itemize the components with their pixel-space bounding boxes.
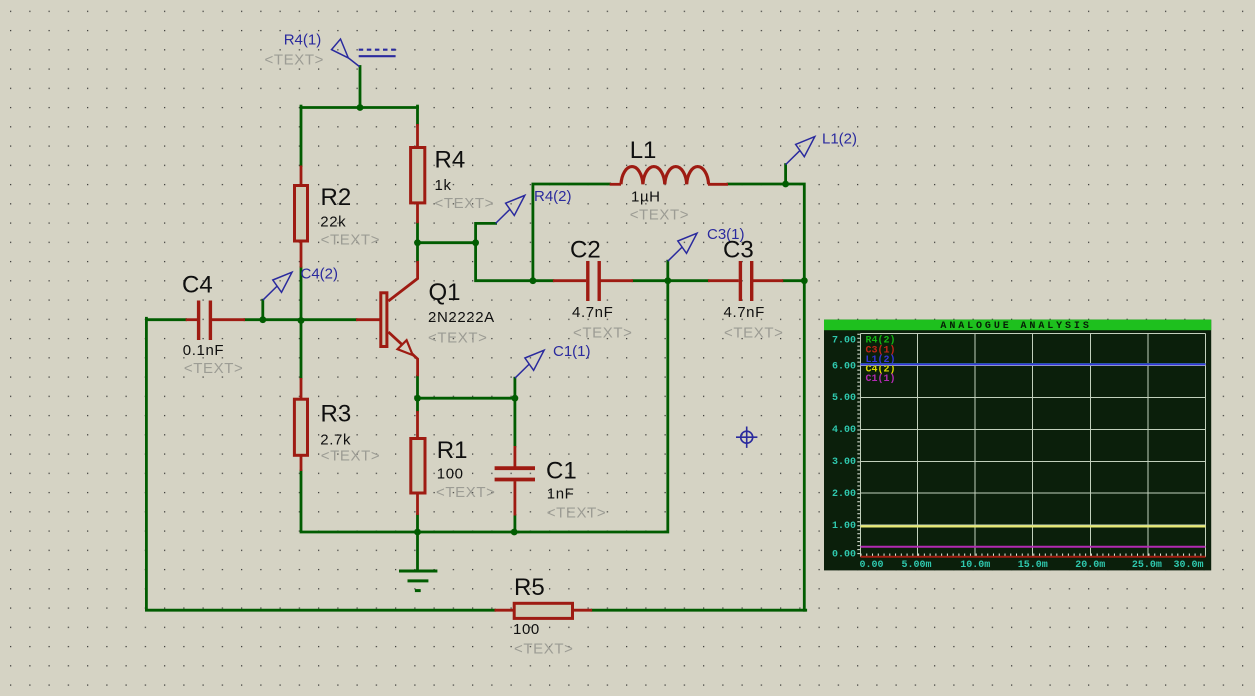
wire - stub for label R4(2) (476, 223, 496, 242)
svg-text:L1: L1 (630, 137, 657, 164)
wire - C2/C3 node down to bottom rail (514, 281, 668, 532)
pin - R5 left (495, 609, 515, 612)
node C2 left junction (530, 277, 537, 284)
wire - emitter to emitter node (416, 376, 419, 398)
graph gridlines (861, 334, 1206, 557)
pin - R1 bottom (416, 494, 419, 516)
net label arrow R4(2) (496, 195, 525, 223)
pin - C4 right (212, 318, 245, 321)
svg-text:<TEXT>: <TEXT> (724, 325, 783, 342)
resistor R2 (295, 186, 308, 242)
svg-text:1k: 1k (435, 177, 452, 194)
svg-text:30.0m: 30.0m (1173, 560, 1203, 571)
svg-text:4.7nF: 4.7nF (724, 304, 765, 321)
net label arrow L1(2) (786, 137, 815, 165)
power rail symbol (VCC terminal) (359, 50, 396, 57)
analogue analysis graph panel (824, 320, 1211, 571)
resistor R3 (294, 399, 307, 455)
capacitor C3 right plate (750, 261, 753, 301)
wire - collector node to feedback corner (418, 241, 476, 244)
trace C4(2) (yellow) (861, 525, 1206, 527)
wire - base node down to R3 (300, 321, 303, 379)
svg-text:25.0m: 25.0m (1132, 560, 1162, 571)
net label arrow C3(1) (668, 233, 697, 261)
pin - C4 left (186, 318, 198, 321)
svg-text:0.00: 0.00 (832, 549, 856, 560)
net label arrow C1(1) (515, 350, 544, 378)
svg-text:C1(1): C1(1) (553, 343, 591, 360)
svg-text:R3: R3 (321, 401, 352, 428)
node collector junction (414, 239, 421, 246)
svg-text:15.0m: 15.0m (1018, 560, 1048, 571)
svg-text:3.00: 3.00 (832, 457, 856, 468)
svg-text:10.0m: 10.0m (960, 560, 990, 571)
wire - stub for label C1(1) (514, 378, 517, 398)
pin - R1 top (416, 411, 419, 439)
wire - stub for label L1(2) (784, 165, 787, 184)
wire - emitter node to C1 node (418, 397, 515, 400)
wire - C3 to right rail (783, 279, 804, 282)
svg-text:4.00: 4.00 (832, 425, 856, 436)
node C1(1) junction (512, 395, 519, 402)
pin - R2 top (300, 166, 303, 187)
capacitor C2 right plate (598, 261, 601, 301)
wire - C1 node down to C1 (514, 398, 517, 446)
capacitor C2 left plate (586, 261, 589, 301)
resistor R5 (514, 603, 572, 618)
svg-text:<TEXT>: <TEXT> (265, 52, 324, 69)
wire - right rail down (784, 184, 804, 610)
svg-text:2N2222A: 2N2222A (428, 309, 495, 326)
svg-text:0.00: 0.00 (860, 560, 884, 571)
svg-text:22k: 22k (320, 213, 346, 230)
wire - top rail (301, 106, 418, 109)
capacitor C3 left plate (739, 261, 742, 301)
svg-text:1.00: 1.00 (832, 521, 856, 532)
wire - ground rail to ground symbol (416, 532, 419, 571)
svg-text:R1: R1 (437, 437, 468, 464)
svg-text:<TEXT>: <TEXT> (436, 484, 495, 501)
wire - L1 right to node L1(2) (728, 183, 786, 186)
svg-text:6.00: 6.00 (832, 361, 856, 372)
pin - Q1 base (356, 318, 380, 321)
svg-text:<TEXT>: <TEXT> (428, 330, 487, 347)
svg-text:<TEXT>: <TEXT> (573, 325, 632, 342)
node ground rail junction 1 (414, 529, 421, 536)
svg-text:20.0m: 20.0m (1075, 560, 1105, 571)
ground (399, 571, 437, 591)
trace L1(2) (blue) (861, 363, 1206, 365)
inductor L1 (621, 167, 709, 185)
wire - emitter node to R1 (416, 398, 419, 411)
origin marker (736, 427, 757, 448)
pin - L1 left (610, 183, 621, 186)
svg-text:2.7k: 2.7k (320, 431, 351, 448)
svg-text:<TEXT>: <TEXT> (435, 195, 494, 212)
wire - left rail to C4 (146, 318, 185, 321)
svg-text:R5: R5 (514, 574, 545, 601)
pin - R3 bottom (300, 456, 303, 471)
pin - R3 top (300, 378, 303, 399)
resistor R4 (411, 148, 425, 203)
node ground rail junction 2 (511, 529, 518, 536)
svg-text:5.00: 5.00 (832, 393, 856, 404)
pin - L1 right (708, 183, 728, 186)
wire - R5 right to right rail (592, 609, 806, 612)
wire - up to L1 left (533, 184, 610, 282)
pin - C2 right (600, 279, 633, 282)
svg-text:R2: R2 (321, 184, 352, 211)
net label arrow C4(2) (263, 272, 292, 300)
trace R4(2) (green, under blue) (861, 363, 1206, 365)
trace C3(1) (red, on x-axis) (861, 556, 1206, 558)
svg-text:0.1nF: 0.1nF (183, 342, 224, 359)
wire - C1 bottom to ground rail (514, 516, 517, 534)
wire - C2 to C3 (633, 279, 708, 282)
svg-text:R4(1): R4(1) (284, 32, 322, 49)
wire - top rail down to R4 (416, 106, 419, 124)
wire - stub for label C3(1) (666, 261, 669, 281)
wire - R3 bottom to ground rail (301, 471, 518, 532)
svg-text:1µH: 1µH (631, 189, 661, 206)
wire - stub for label C4(2) (261, 300, 264, 320)
wire - R2 bottom to base node (300, 268, 303, 321)
svg-text:C1: C1 (546, 458, 577, 485)
svg-text:<TEXT>: <TEXT> (321, 448, 380, 465)
svg-text:L1(2): L1(2) (822, 131, 857, 148)
wire - R4 bottom to collector node (416, 223, 419, 261)
svg-text:100: 100 (513, 621, 540, 638)
wire - R1 bottom to ground rail (416, 515, 419, 533)
svg-text:R4: R4 (435, 147, 466, 174)
pin - R4 bottom (416, 204, 419, 224)
svg-text:<TEXT>: <TEXT> (514, 641, 573, 658)
svg-text:Q1: Q1 (429, 279, 461, 306)
pin - R4 top (416, 124, 419, 148)
svg-text:C3: C3 (723, 237, 754, 264)
node L1(2) junction (782, 181, 789, 188)
wire - to C2 left pin (533, 279, 553, 282)
node VCC rail junction (357, 104, 364, 111)
node base junction (298, 317, 305, 324)
svg-text:C4(2): C4(2) (301, 266, 339, 283)
pin - C2 left (553, 279, 586, 282)
wire - power drop to top rail (359, 67, 362, 108)
net label arrow R4(1) (332, 39, 360, 67)
svg-text:5.00m: 5.00m (901, 560, 931, 571)
resistor R1 (411, 439, 425, 494)
pin - R5 right (573, 609, 593, 612)
svg-text:C2: C2 (570, 237, 601, 264)
graph title bar (824, 320, 1211, 331)
svg-text:7.00: 7.00 (832, 335, 856, 346)
capacitor C4 right plate (209, 301, 212, 341)
graph x-axis minor ticks (861, 554, 1206, 557)
graph y-axis minor ticks (857, 334, 860, 557)
svg-text:4.7nF: 4.7nF (572, 304, 613, 321)
capacitor C1 top plate (495, 466, 535, 470)
pin - C1 top (514, 446, 517, 467)
pin - R2 bottom (300, 242, 303, 268)
svg-text:C4: C4 (182, 272, 213, 299)
trace C1(1) (magenta) (861, 546, 1206, 548)
svg-text:<TEXT>: <TEXT> (321, 232, 380, 249)
capacitor C4 left plate (197, 301, 200, 341)
pin - C3 right (753, 279, 783, 282)
pin - C1 bottom (514, 481, 517, 515)
node right rail junction (801, 277, 808, 284)
node C4(2) junction (259, 316, 266, 323)
svg-text:100: 100 (437, 466, 464, 483)
capacitor C1 bottom plate (495, 478, 535, 482)
wire - C4 to Q1 base node (245, 318, 356, 321)
svg-text:1nF: 1nF (547, 486, 575, 503)
svg-text:R4(2): R4(2) (534, 188, 572, 205)
node emitter junction (414, 395, 421, 402)
wire - left rail down to R5 row (146, 318, 494, 610)
svg-text:ANALOGUE ANALYSIS: ANALOGUE ANALYSIS (940, 321, 1091, 332)
svg-text:C1(1): C1(1) (866, 373, 896, 385)
transistor Q1 (381, 261, 418, 376)
node R4(2) junction (472, 239, 479, 246)
pin - C3 left (708, 279, 739, 282)
wire - top rail down to R2 (300, 106, 303, 165)
wire - down to C2 row (476, 243, 533, 281)
svg-text:2.00: 2.00 (832, 489, 856, 500)
svg-text:<TEXT>: <TEXT> (630, 207, 689, 224)
svg-text:<TEXT>: <TEXT> (547, 505, 606, 522)
node C3(1) junction (664, 277, 671, 284)
svg-text:<TEXT>: <TEXT> (184, 360, 243, 377)
